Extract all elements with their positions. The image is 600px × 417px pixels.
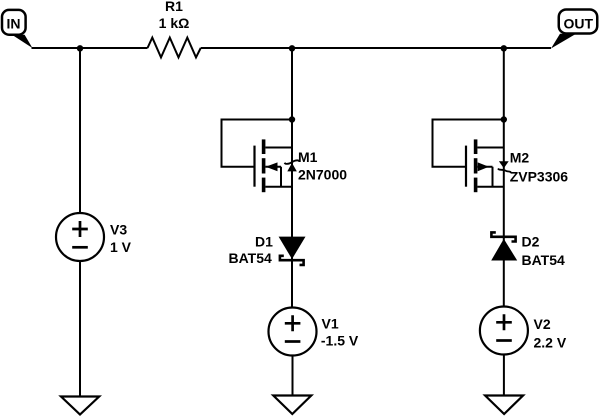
svg-text:R1: R1 <box>165 0 183 14</box>
svg-text:IN: IN <box>7 15 21 31</box>
wire M2 gate feedback loop <box>433 120 504 167</box>
svg-text:1 V: 1 V <box>110 239 132 255</box>
svg-text:2.2 V: 2.2 V <box>534 335 567 351</box>
transistor M2 <box>466 139 568 192</box>
wire M2 branch vertical <box>503 48 505 307</box>
svg-text:M2: M2 <box>510 150 530 166</box>
ground under V1 <box>273 396 311 415</box>
diode D1 <box>229 234 306 267</box>
wire V3 to ground <box>79 261 81 397</box>
svg-text:1 kΩ: 1 kΩ <box>159 15 190 31</box>
svg-text:2N7000: 2N7000 <box>298 167 347 183</box>
node junction dot M2 gate loop <box>501 116 507 122</box>
svg-text:V3: V3 <box>110 221 127 237</box>
voltage source V1 <box>269 308 359 356</box>
transistor M1 <box>255 139 348 192</box>
node junction dot at OUT branch <box>501 45 507 51</box>
svg-text:ZVP3306: ZVP3306 <box>510 169 569 185</box>
ground under V3 <box>61 397 99 415</box>
svg-text:V2: V2 <box>534 316 551 332</box>
wire IN to resistor <box>32 47 148 49</box>
svg-text:OUT: OUT <box>564 15 594 31</box>
svg-text:D1: D1 <box>255 234 273 250</box>
diode D2 <box>491 232 565 267</box>
resistor R1 <box>148 38 201 58</box>
wire V1 to ground <box>292 356 294 396</box>
node junction dot at M1 branch <box>289 45 295 51</box>
voltage source V3 <box>56 213 132 261</box>
ground under V2 <box>485 396 523 415</box>
svg-text:D2: D2 <box>522 233 540 249</box>
node junction dot M1 gate loop <box>289 116 295 122</box>
wire resistor to OUT <box>201 47 551 49</box>
wire M1 gate feedback loop <box>222 120 293 167</box>
wire M1 branch vertical <box>291 48 293 308</box>
terminal IN <box>2 10 32 48</box>
wire V2 to ground <box>503 355 505 396</box>
voltage source V2 <box>480 307 567 355</box>
svg-text:M1: M1 <box>298 149 318 165</box>
svg-text:-1.5 V: -1.5 V <box>321 333 359 349</box>
wire top to V3 <box>79 48 81 213</box>
terminal OUT <box>551 9 597 48</box>
node junction dot at V3 branch <box>77 45 83 51</box>
svg-text:BAT54: BAT54 <box>229 250 273 266</box>
svg-text:V1: V1 <box>322 315 339 331</box>
svg-text:BAT54: BAT54 <box>522 252 566 268</box>
